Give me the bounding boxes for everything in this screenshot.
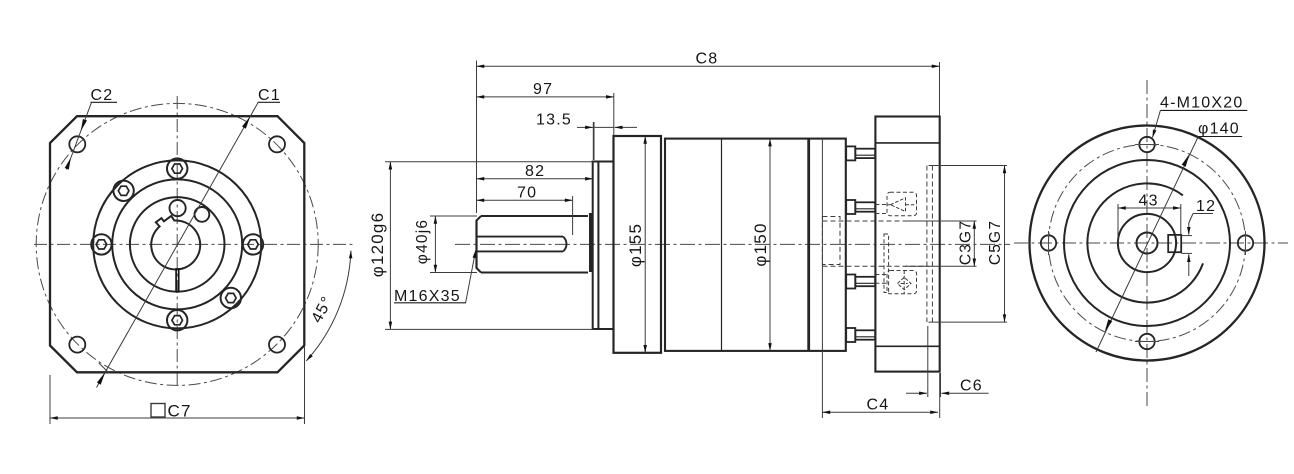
C2 leader through corner hole [67,102,92,169]
plate corner line top [875,142,939,144]
shaft end face at disc [589,213,593,272]
svg-text:C4: C4 [867,397,890,414]
svg-text:C8: C8 [696,51,719,68]
45 text [309,293,337,326]
extension: disc left face / 82 [592,122,594,160]
svg-text:φ150: φ150 [751,222,770,266]
front flange (phi155) [614,136,662,353]
bore [1137,233,1158,254]
outer flange circle [1030,126,1265,361]
screw 3 [846,275,875,289]
extension: C8 right at plate [939,62,941,116]
corner hole bottom-right [269,337,285,353]
plate corner line bottom [875,345,939,347]
pilot disc (phi120) [593,162,614,330]
svg-text:M16X35: M16X35 [394,288,461,305]
hidden bore C3 lines [823,220,930,222]
svg-text:70: 70 [517,185,537,202]
dim C4 [939,373,941,418]
diagonal line C1 [97,102,259,387]
bolt hole bottom [1139,334,1154,349]
svg-text:C5G7: C5G7 [987,220,1004,265]
dim 12 (outside arrows) [1182,235,1193,237]
C7 text [168,402,192,421]
svg-text:43: 43 [1139,193,1159,210]
dim 13.5 (outside arrows) [577,126,593,128]
svg-text:φ155: φ155 [626,223,645,267]
output shaft [477,216,589,273]
label 4-M10X20 [1160,95,1243,112]
horizontal centerline [34,243,354,245]
extension: flange front face / 97 [613,93,615,135]
hidden pocket lower [887,271,917,294]
label C1 [258,87,281,104]
socket screw right [243,234,263,254]
label phi140 [1198,121,1240,138]
central bore with keyway notch [151,216,200,270]
socket screw lower-right [221,288,241,308]
C2 upper arrow [81,119,87,131]
dim C3G7 [905,220,977,222]
arrow on bottom edge [97,372,105,384]
dim phi155 [644,136,646,353]
diagonal diameter line [1096,137,1198,353]
svg-text:φ120g6: φ120g6 [368,212,387,278]
bore bottom line / C4 extension [821,139,823,418]
svg-text:C6: C6 [960,378,983,395]
socket screw top [167,158,187,178]
svg-text:12: 12 [1196,198,1216,215]
arrow at bottom crossing [1105,319,1113,332]
svg-text:82: 82 [525,163,545,180]
svg-text:φ40j6: φ40j6 [414,219,431,264]
45 degree dimension arc [306,251,351,361]
clamp screw rect [1168,235,1181,252]
label M16X35 [466,250,476,303]
hidden recess verticals [926,166,928,323]
svg-text:C7: C7 [168,402,192,421]
hub circle [1118,214,1176,272]
bolt hole left [1041,235,1056,250]
screw 1 [846,146,875,160]
dim 97 [477,96,614,98]
flange square outline with chamfered corners [50,116,304,372]
inner circle 1 [112,179,242,309]
main axis centerline [455,243,1010,245]
adapter plate (motor flange) [875,117,939,372]
corner hole top-left [69,136,85,152]
dim phi40j6 [430,215,477,217]
socket screw bottom [167,310,187,330]
bolt circle phi140 dash-dot [1049,145,1246,342]
clamp slot [176,268,179,292]
svg-text:13.5: 13.5 [536,112,572,129]
corner hole top-right [269,136,285,152]
corner hole bottom-left [69,337,85,353]
set screw symbol upper [887,198,917,212]
svg-text:C1: C1 [258,87,281,104]
dim C6 (outside arrows) [927,326,929,397]
dim phi120g6 [385,161,594,163]
plug symbol lower [897,271,911,294]
screw 4 [846,328,875,342]
svg-text:C2: C2 [91,87,114,104]
dim phi150 [769,139,771,351]
inner flange circle [1064,160,1230,326]
screw 2 [846,200,875,214]
svg-text:4-M10X20: 4-M10X20 [1160,95,1243,112]
socket screw upper-left [113,181,133,201]
horizontal centerline [1014,242,1288,244]
end cap joint line [807,139,810,351]
C2 lower arrow [65,158,71,170]
dim 43 [1117,204,1119,243]
screw ring outer circle [93,160,261,328]
dim C8 [477,65,940,67]
body section line [721,139,723,351]
hidden pocket upper [887,192,917,215]
arrow on top edge [242,116,250,128]
socket screw left [91,234,111,254]
bolt circle (corner holes, dash-dot) [36,103,318,385]
shaft keyway slot [477,237,566,252]
svg-text:φ140: φ140 [1198,121,1240,138]
vertical centerline [1146,80,1148,407]
svg-text:C3G7: C3G7 [958,220,975,265]
gearbox body (phi150) [665,139,846,351]
extension: shaft tip [476,61,478,214]
bolt hole top [1139,137,1154,152]
C7 dimension line [50,417,305,419]
access arc [1087,183,1203,302]
vertical centerline [176,96,178,388]
dim 70 [477,199,573,201]
disc chamfer line [597,162,599,330]
hidden keyway slot in plate [884,234,889,293]
arrow at top crossing [1182,154,1190,167]
svg-text:97: 97 [533,81,553,98]
square symbol [151,404,165,418]
label C2 [91,87,114,104]
small hole A [170,200,186,216]
hidden coupling hub [822,217,840,265]
small hole B [195,207,210,222]
inner circle 2 [130,197,225,292]
dim 82 [477,178,593,180]
chamfer direction tick at bottom arrow [99,363,109,373]
dim C5G7 [929,165,1008,167]
bottom dimension C7: extension lines [49,375,51,424]
bolt hole right [1238,235,1253,250]
hidden screw holes s2 s3 [875,205,887,284]
